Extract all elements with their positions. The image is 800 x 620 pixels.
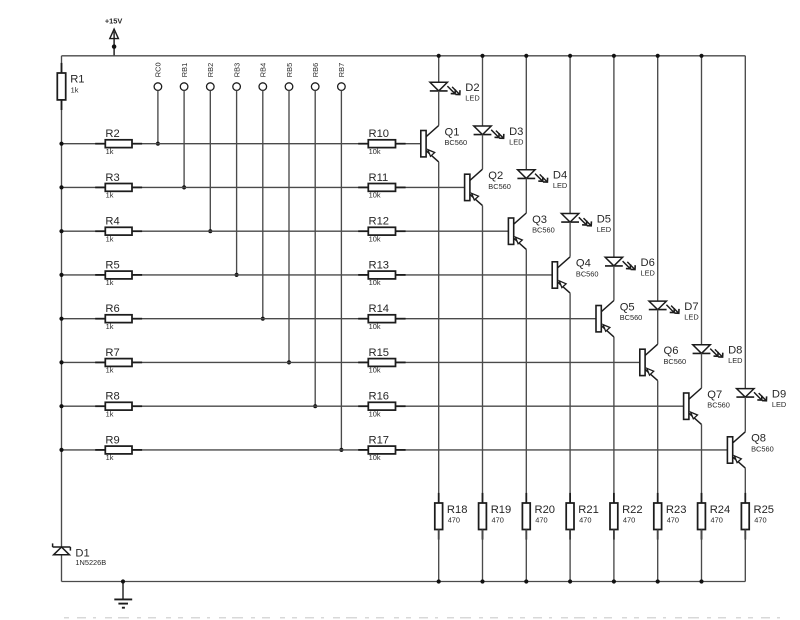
svg-text:R1: R1 <box>70 74 84 86</box>
wire D3 cathode to Q2 collector <box>482 135 484 170</box>
svg-text:Q3: Q3 <box>532 214 547 226</box>
resistor R14 <box>358 303 405 331</box>
terminal RB4 <box>259 63 268 91</box>
junction dot bottom rail col 7 <box>699 579 703 583</box>
svg-text:LED: LED <box>597 225 611 234</box>
svg-text:10k: 10k <box>369 453 381 462</box>
svg-text:470: 470 <box>535 515 547 524</box>
junction dot node RB5-row6 <box>287 360 291 364</box>
svg-text:470: 470 <box>579 515 591 524</box>
wire R19 to bottom rail <box>482 530 484 582</box>
wire row 5 (base net of Q5) <box>62 318 597 320</box>
svg-text:RB5: RB5 <box>285 63 294 77</box>
wire R23 to bottom rail <box>657 530 659 582</box>
wire terminal RB1 to row 2 <box>183 90 185 187</box>
svg-text:1k: 1k <box>71 85 79 94</box>
junction dot top rail col 7 <box>699 54 703 58</box>
transistor Q8 <box>727 432 773 468</box>
wire R25 to bottom rail <box>744 530 746 582</box>
wire D7 cathode to Q6 collector <box>657 310 659 345</box>
svg-text:1k: 1k <box>106 147 114 156</box>
svg-text:10k: 10k <box>369 322 381 331</box>
wire row 8 (base net of Q8) <box>62 449 728 451</box>
wire left rail upper segment <box>61 56 63 73</box>
svg-text:R13: R13 <box>369 259 390 271</box>
junction dot bottom rail col 5 <box>612 579 616 583</box>
wire left rail lower segment <box>61 555 63 582</box>
resistor R9 <box>95 434 142 462</box>
svg-text:470: 470 <box>448 515 460 524</box>
svg-text:Q7: Q7 <box>707 389 722 401</box>
wire R21 to bottom rail <box>569 530 571 582</box>
wire Q8 emitter to R25 <box>744 468 746 503</box>
junction dot bottom rail col 3 <box>524 579 528 583</box>
svg-text:R23: R23 <box>666 504 687 516</box>
zener diode D1 <box>53 543 107 567</box>
resistor R13 <box>358 259 405 287</box>
svg-text:R25: R25 <box>754 504 775 516</box>
svg-text:D2: D2 <box>465 82 479 94</box>
wire D5 cathode to Q4 collector <box>569 222 571 257</box>
svg-text:R4: R4 <box>105 216 119 228</box>
net label +15V <box>105 17 123 26</box>
wire top rail to D5 <box>569 56 571 214</box>
svg-text:R12: R12 <box>369 216 390 228</box>
wire top rail to D2 <box>438 56 440 83</box>
junction dot node RB1-row2 <box>182 185 186 189</box>
resistor R23 <box>654 493 687 540</box>
svg-text:D7: D7 <box>684 301 698 313</box>
wire Q3 emitter to R20 <box>525 249 527 503</box>
wire terminal RB4 to row 5 <box>262 90 264 318</box>
resistor R25 <box>741 493 774 540</box>
svg-text:R3: R3 <box>105 172 119 184</box>
svg-text:D8: D8 <box>728 345 742 357</box>
terminal RB7 <box>337 63 346 91</box>
LED D2 <box>430 82 480 103</box>
resistor R10 <box>358 128 405 156</box>
svg-text:LED: LED <box>728 356 742 365</box>
svg-text:R8: R8 <box>105 391 119 403</box>
svg-text:R6: R6 <box>105 303 119 315</box>
svg-text:D6: D6 <box>641 257 655 269</box>
wire top rail to D8 <box>701 56 703 345</box>
svg-text:+15V: +15V <box>105 17 123 26</box>
svg-text:RB6: RB6 <box>311 63 320 77</box>
wire terminal RB5 to row 6 <box>288 90 290 362</box>
svg-text:D4: D4 <box>553 170 567 182</box>
resistor R7 <box>95 347 142 375</box>
svg-text:LED: LED <box>553 181 567 190</box>
wire Q7 emitter to R24 <box>701 424 703 503</box>
resistor R21 <box>566 493 599 540</box>
junction dot left rail row 3 <box>59 229 63 233</box>
terminal RB6 <box>311 63 320 91</box>
transistor Q4 <box>552 257 598 293</box>
svg-text:470: 470 <box>711 515 723 524</box>
svg-text:10k: 10k <box>369 409 381 418</box>
wire terminal RB2 to row 3 <box>209 90 211 231</box>
junction dot top rail col 3 <box>524 54 528 58</box>
svg-text:1k: 1k <box>106 278 114 287</box>
svg-text:470: 470 <box>754 515 766 524</box>
resistor R17 <box>358 434 405 462</box>
wire R18 to bottom rail <box>438 530 440 582</box>
svg-text:Q5: Q5 <box>620 301 635 313</box>
svg-text:LED: LED <box>684 312 698 321</box>
svg-text:BC560: BC560 <box>532 226 555 235</box>
wire D2 cathode to Q1 collector <box>438 91 440 126</box>
junction dot bottom rail col 4 <box>568 579 572 583</box>
junction dot top rail col 5 <box>612 54 616 58</box>
svg-text:R14: R14 <box>369 303 390 315</box>
wire D8 cathode to Q7 collector <box>701 353 703 388</box>
resistor R11 <box>358 172 405 200</box>
wire terminal RB6 to row 7 <box>314 90 316 406</box>
svg-text:Q1: Q1 <box>445 126 460 138</box>
svg-text:R5: R5 <box>105 259 119 271</box>
wire top rail to D6 <box>613 56 615 257</box>
wire R22 to bottom rail <box>613 530 615 582</box>
wire Q5 emitter to R22 <box>613 337 615 503</box>
junction dot node RB7-row8 <box>339 448 343 452</box>
terminal RB3 <box>232 63 241 91</box>
LED D8 <box>693 345 743 366</box>
junction dot node RB3-row4 <box>235 273 239 277</box>
resistor R1 <box>57 63 84 110</box>
wire D4 cathode to Q3 collector <box>525 178 527 213</box>
junction dot ground <box>121 579 125 583</box>
svg-text:R18: R18 <box>447 504 468 516</box>
junction dot bottom rail col 2 <box>480 579 484 583</box>
svg-text:10k: 10k <box>369 234 381 243</box>
junction dot top rail col 2 <box>480 54 484 58</box>
svg-text:470: 470 <box>492 515 504 524</box>
resistor R2 <box>95 128 142 156</box>
svg-text:Q8: Q8 <box>751 433 766 445</box>
transistor Q1 <box>421 126 467 162</box>
resistor R18 <box>435 493 468 540</box>
transistor Q6 <box>640 344 686 380</box>
junction dot node RC0-row1 <box>156 142 160 146</box>
svg-text:R10: R10 <box>369 128 390 140</box>
resistor R3 <box>95 172 142 200</box>
wire row 3 (base net of Q3) <box>62 230 509 232</box>
wire Q6 emitter to R23 <box>657 381 659 503</box>
svg-text:BC560: BC560 <box>620 313 643 322</box>
terminal RB2 <box>206 63 215 91</box>
svg-text:1k: 1k <box>106 409 114 418</box>
wire row 2 (base net of Q2) <box>62 186 465 188</box>
wire top rail <box>62 55 746 57</box>
wire row 6 (base net of Q6) <box>62 361 640 363</box>
wire R24 to bottom rail <box>701 530 703 582</box>
resistor R15 <box>358 347 405 375</box>
svg-text:RB7: RB7 <box>337 63 346 77</box>
wire row 7 (base net of Q7) <box>62 405 684 407</box>
svg-text:R21: R21 <box>578 504 599 516</box>
junction dot top rail col 4 <box>568 54 572 58</box>
LED D9 <box>736 388 786 409</box>
svg-text:470: 470 <box>623 515 635 524</box>
wire terminal RB3 to row 4 <box>236 90 238 275</box>
junction dot left rail row 5 <box>59 317 63 321</box>
resistor R16 <box>358 391 405 419</box>
svg-text:Q6: Q6 <box>664 345 679 357</box>
svg-text:R22: R22 <box>622 504 643 516</box>
junction dot power stem <box>112 44 117 49</box>
svg-text:1k: 1k <box>106 234 114 243</box>
svg-text:RB4: RB4 <box>259 63 268 77</box>
resistor R19 <box>479 493 512 540</box>
resistor R24 <box>698 493 731 540</box>
resistor R20 <box>522 493 555 540</box>
wire Q1 emitter to R18 <box>438 162 440 503</box>
svg-text:R19: R19 <box>491 504 512 516</box>
wire Q2 emitter to R19 <box>482 206 484 503</box>
junction dot left rail row 2 <box>59 185 63 189</box>
svg-text:1N5226B: 1N5226B <box>75 558 106 567</box>
junction dot bottom rail col 6 <box>656 579 660 583</box>
junction dot left rail row 4 <box>59 273 63 277</box>
svg-text:BC560: BC560 <box>576 269 599 278</box>
transistor Q5 <box>596 301 642 337</box>
svg-text:R7: R7 <box>105 347 119 359</box>
svg-text:BC560: BC560 <box>664 357 687 366</box>
svg-text:470: 470 <box>667 515 679 524</box>
svg-text:10k: 10k <box>369 147 381 156</box>
svg-text:Q4: Q4 <box>576 258 591 270</box>
svg-text:RB3: RB3 <box>232 63 241 77</box>
svg-text:LED: LED <box>509 137 523 146</box>
junction dot top rail col 6 <box>656 54 660 58</box>
junction dot left rail row 6 <box>59 360 63 364</box>
svg-text:RC0: RC0 <box>154 62 163 77</box>
junction dot node RB2-row3 <box>208 229 212 233</box>
svg-text:R17: R17 <box>369 434 390 446</box>
resistor R12 <box>358 216 405 244</box>
wire R20 to bottom rail <box>525 530 527 582</box>
svg-text:LED: LED <box>641 269 655 278</box>
cropped caption artifacts (decor) <box>64 617 788 619</box>
svg-text:1k: 1k <box>106 453 114 462</box>
wire top rail to D4 <box>525 56 527 170</box>
svg-text:D9: D9 <box>772 388 786 400</box>
wire terminal RB7 to row 8 <box>340 90 342 450</box>
resistor R22 <box>610 493 643 540</box>
junction dot node RB4-row5 <box>261 317 265 321</box>
svg-text:10k: 10k <box>369 191 381 200</box>
junction dot left rail row 7 <box>59 404 63 408</box>
ground <box>114 582 132 608</box>
svg-text:1k: 1k <box>106 322 114 331</box>
svg-text:LED: LED <box>772 400 786 409</box>
wire top rail to D7 <box>657 56 659 301</box>
LED D6 <box>605 257 655 278</box>
svg-text:RB1: RB1 <box>180 63 189 77</box>
power +15V arrow symbol <box>110 29 119 56</box>
wire D6 cathode to Q5 collector <box>613 266 615 301</box>
svg-text:Q2: Q2 <box>488 170 503 182</box>
svg-text:10k: 10k <box>369 278 381 287</box>
svg-text:10k: 10k <box>369 366 381 375</box>
junction dot bottom rail col 1 <box>437 579 441 583</box>
LED D3 <box>474 126 524 147</box>
wire terminal RC0 to row 1 <box>157 90 159 143</box>
svg-text:R9: R9 <box>105 434 119 446</box>
svg-text:R20: R20 <box>535 504 556 516</box>
svg-text:1k: 1k <box>106 366 114 375</box>
wire Q4 emitter to R21 <box>569 293 571 503</box>
wire left rail middle segment <box>61 100 63 547</box>
terminal RB1 <box>180 63 189 91</box>
LED D7 <box>649 301 699 322</box>
svg-text:BC560: BC560 <box>707 401 730 410</box>
transistor Q7 <box>684 388 730 424</box>
svg-text:D5: D5 <box>597 213 611 225</box>
svg-text:RB2: RB2 <box>206 63 215 77</box>
svg-text:R16: R16 <box>369 391 390 403</box>
resistor R5 <box>95 259 142 287</box>
junction dot node RB6-row7 <box>313 404 317 408</box>
svg-text:R11: R11 <box>369 172 389 184</box>
resistor R8 <box>95 391 142 419</box>
LED D5 <box>561 213 611 234</box>
wire row 4 (base net of Q4) <box>62 274 553 276</box>
svg-text:D3: D3 <box>509 126 523 138</box>
junction dot left rail row 8 <box>59 448 63 452</box>
transistor Q2 <box>465 169 511 205</box>
LED D4 <box>517 170 567 191</box>
svg-text:R24: R24 <box>710 504 731 516</box>
svg-text:R2: R2 <box>105 128 119 140</box>
svg-text:BC560: BC560 <box>488 182 511 191</box>
resistor R6 <box>95 303 142 331</box>
terminal RC0 <box>154 62 163 90</box>
svg-text:LED: LED <box>465 94 479 103</box>
terminal RB5 <box>285 63 294 91</box>
svg-text:BC560: BC560 <box>751 444 774 453</box>
junction dot top rail col 1 <box>437 54 441 58</box>
wire right rail (column of Q8/D9) <box>744 56 746 389</box>
wire row 1 (base net of Q1) <box>62 143 421 145</box>
svg-text:BC560: BC560 <box>445 138 468 147</box>
resistor R4 <box>95 216 142 244</box>
wire bottom rail <box>62 581 746 583</box>
svg-text:1k: 1k <box>106 191 114 200</box>
wire D9 cathode to Q8 collector <box>744 397 746 432</box>
transistor Q3 <box>508 213 554 249</box>
svg-text:R15: R15 <box>369 347 390 359</box>
wire top rail to D3 <box>482 56 484 126</box>
junction dot left rail row 1 <box>59 142 63 146</box>
